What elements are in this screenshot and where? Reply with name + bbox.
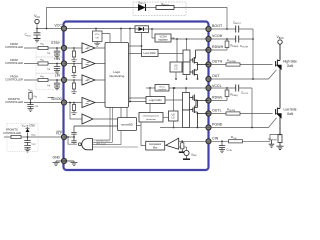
- wire VCC to logic: [120, 29, 122, 43]
- svg-text:RDWH: RDWH: [212, 45, 224, 49]
- block logic interlocking: [105, 42, 129, 107]
- svg-text:LIN: LIN: [55, 73, 61, 77]
- channel SD/OD external: [5, 88, 64, 111]
- wire OUT: [209, 70, 277, 79]
- svg-text:BOOT: BOOT: [212, 24, 223, 28]
- ground left of GND: [53, 161, 65, 166]
- terminal VBUS: [278, 40, 282, 44]
- VCOH external: [209, 36, 254, 43]
- node VCC junctions: [36, 28, 38, 30]
- svg-text:CONTROLLER: CONTROLLER: [5, 78, 23, 82]
- svg-text:filter: filter: [153, 146, 158, 149]
- buffer HIN: [82, 59, 95, 69]
- svg-text:VCOH: VCOH: [212, 34, 223, 38]
- gate FLT: [64, 107, 138, 149]
- pin STBY: [61, 45, 66, 50]
- svg-text:LO: LO: [172, 118, 175, 120]
- svg-text:Overtemperature: Overtemperature: [143, 115, 160, 118]
- VCCL external: [209, 85, 253, 128]
- channel FLT external: [3, 124, 64, 153]
- resistor RDW(H): [225, 38, 238, 50]
- svg-text:OUT: OUT: [212, 74, 220, 78]
- pin HIN: [61, 61, 66, 66]
- transistor high side GaN: [276, 44, 280, 107]
- svg-text:OVT event: OVT event: [96, 143, 106, 146]
- svg-text:UV: UV: [174, 65, 178, 67]
- svg-text:OUTH: OUTH: [212, 60, 223, 64]
- pin LIN: [61, 77, 66, 82]
- resistor RG(ON)L: [209, 107, 273, 115]
- internal pulldown HIN: [71, 63, 76, 78]
- wire PGND internal: [160, 127, 209, 129]
- svg-text:Comparator: Comparator: [149, 143, 161, 146]
- internal pulldown STBY: [71, 47, 76, 62]
- block POR: [93, 28, 111, 46]
- svg-text:regulator: regulator: [158, 39, 168, 42]
- wire bootstrap bypass top: [47, 8, 228, 30]
- svg-text:FLT: FLT: [56, 132, 62, 136]
- svg-text:CONTROLLER: CONTROLLER: [5, 100, 23, 104]
- svg-text:UV: UV: [172, 114, 176, 116]
- svg-text:GaN: GaN: [287, 64, 294, 68]
- pin FLT: [61, 134, 66, 139]
- svg-text:protection: protection: [146, 118, 156, 121]
- block VCCL regulator: [146, 85, 209, 113]
- svg-text:VCCL: VCCL: [159, 86, 166, 88]
- block UVLO low: [169, 87, 179, 128]
- IC body border: [64, 22, 209, 171]
- channel HIN external: [5, 57, 64, 74]
- svg-text:CONTROLLER: CONTROLLER: [5, 61, 23, 65]
- comparator filter block: [137, 122, 165, 150]
- pin VCC: [61, 26, 66, 31]
- block VCOH regulator: [151, 28, 208, 42]
- wire VCC to logic buffer: [129, 29, 131, 102]
- channel LIN external: [5, 73, 64, 90]
- LS driver boxes: [183, 93, 190, 111]
- wire RDWH: [209, 49, 228, 51]
- LS output transistors: [190, 95, 209, 128]
- channel STBY external: [5, 41, 64, 58]
- comparator CIN: [165, 138, 209, 150]
- block logic buffer: [129, 97, 183, 104]
- svg-text:Low Side: Low Side: [283, 107, 296, 111]
- wire PGND: [209, 118, 277, 128]
- buffer SD2: [82, 114, 93, 124]
- pin SD/OD: [61, 100, 66, 105]
- block UVLO high: [170, 38, 182, 80]
- HS output transistors: [190, 50, 209, 79]
- buffer STBY: [82, 43, 95, 53]
- node line to OUT: [252, 29, 254, 79]
- CIN external: [209, 135, 281, 142]
- wire RDWL: [209, 100, 228, 102]
- svg-text:GND: GND: [52, 156, 60, 160]
- internal pulldown SD: [71, 102, 76, 115]
- resistor RSHUNT: [269, 134, 284, 150]
- terminal VCC: [35, 19, 39, 23]
- svg-text:STBY: STBY: [51, 41, 61, 45]
- ground small near shunt: [269, 140, 275, 147]
- resistor RBOOT: [146, 2, 187, 10]
- svg-text:Logic buffer: Logic buffer: [149, 99, 162, 102]
- transistor low side GaN: [276, 108, 280, 135]
- svg-text:LO: LO: [174, 69, 177, 71]
- capacitor CCIN: [219, 141, 225, 152]
- svg-text:RDWL: RDWL: [212, 96, 223, 100]
- svg-text:VCCL: VCCL: [212, 84, 222, 88]
- svg-text:High Side: High Side: [283, 59, 297, 63]
- svg-text:smartSD: smartSD: [121, 122, 134, 126]
- svg-text:VDD or STBY: VDD or STBY: [22, 124, 36, 128]
- svg-text:Level shifter: Level shifter: [144, 52, 157, 55]
- svg-text:OUTL: OUTL: [212, 109, 222, 113]
- source VREF: [183, 150, 197, 159]
- svg-text:CONTROLLER: CONTROLLER: [5, 45, 23, 49]
- svg-text:CIN: CIN: [212, 136, 219, 140]
- pin GND: [61, 158, 66, 163]
- svg-text:regulator: regulator: [158, 88, 167, 91]
- capacitor CVCC: [34, 29, 41, 39]
- svg-text:smartSD UVLO: smartSD UVLO: [96, 139, 110, 142]
- block level shifter: [129, 33, 184, 57]
- resistor on CIN comparator: [179, 140, 186, 152]
- schmitt marks: [86, 47, 90, 103]
- right side pins: [206, 26, 211, 143]
- block smartSD: [118, 118, 137, 131]
- resistor RG(ON)H: [209, 58, 273, 66]
- svg-text:OK: OK: [96, 38, 100, 40]
- svg-text:VCC: VCC: [95, 34, 100, 36]
- internal pulldown LIN: [71, 79, 76, 94]
- svg-text:SD/OD: SD/OD: [51, 97, 62, 101]
- svg-text:interlocking: interlocking: [109, 74, 125, 78]
- svg-text:CONTROLLER: CONTROLLER: [3, 131, 21, 135]
- svg-text:GaN: GaN: [287, 112, 294, 116]
- svg-text:PGND: PGND: [212, 123, 223, 127]
- ground under CVCC: [34, 39, 41, 42]
- dashed box external bootstrap: [133, 2, 186, 16]
- ground right of GND internal: [64, 161, 78, 166]
- block overtemperature: [139, 113, 163, 123]
- resistor RDW(L): [225, 88, 238, 101]
- wire diode box to BOOT pin: [148, 28, 209, 30]
- wire logic to smartSD: [121, 107, 127, 117]
- svg-text:VCC: VCC: [54, 23, 62, 27]
- buffer SD1: [82, 98, 95, 108]
- wire VCC rail internal: [64, 28, 135, 30]
- internal bootstrap diode box: [135, 26, 149, 33]
- diode DBOOT: [133, 1, 146, 11]
- buffer LIN: [82, 75, 95, 85]
- svg-text:HIN: HIN: [54, 57, 60, 61]
- resistor RCIN: [229, 140, 243, 143]
- wire VCC terminal to pin: [37, 24, 64, 29]
- BOOT external: [209, 26, 254, 33]
- HS driver boxes: [183, 50, 190, 62]
